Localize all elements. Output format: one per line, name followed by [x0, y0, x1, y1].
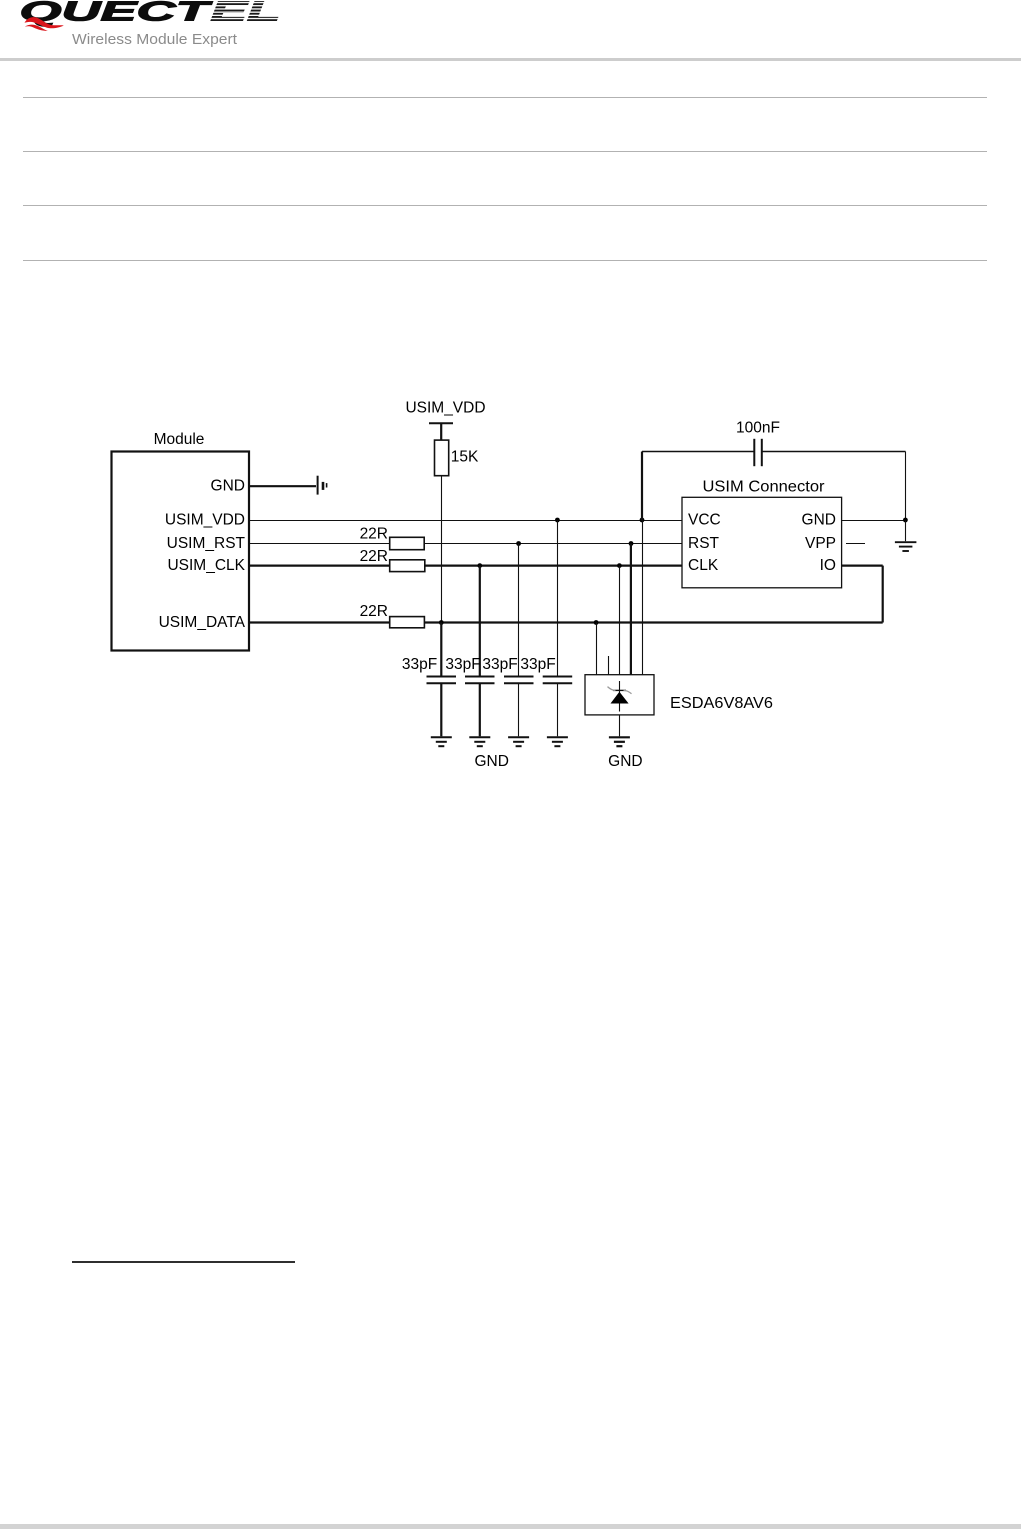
header rule	[0, 58, 1021, 61]
wire USIM_RST net (module to R 22R)	[249, 543, 390, 545]
svg-text:IO: IO	[820, 557, 836, 574]
svg-text:22R: 22R	[360, 526, 388, 543]
power bar USIM_VDD	[429, 422, 453, 424]
ground (under ESD)	[609, 737, 630, 746]
table row lines	[23, 97, 987, 98]
node junction USIM_VDD to C4	[555, 518, 560, 523]
wire R4 to connector IO loop	[424, 621, 882, 623]
ground (right of connector)	[895, 542, 917, 551]
ground (under C2)	[469, 737, 490, 746]
module U (Module block)	[112, 431, 250, 651]
wire GND pin of module	[249, 485, 316, 487]
svg-text:USIM Connector: USIM Connector	[703, 478, 825, 495]
svg-text:USIM_RST: USIM_RST	[167, 535, 246, 552]
connector J1 USIM Connector	[682, 478, 842, 588]
wire VPP stub (NC)	[846, 543, 865, 545]
wire connector GND pin	[842, 520, 906, 522]
node junction CLK to C2	[477, 563, 482, 568]
svg-text:22R: 22R	[360, 603, 388, 620]
ground (under C3)	[508, 737, 529, 746]
svg-text:VCC: VCC	[688, 511, 721, 528]
wire ESD pin2 stub (NC)	[608, 656, 610, 675]
svg-text:USIM_DATA: USIM_DATA	[159, 614, 246, 631]
node junction RST to ESD	[629, 541, 634, 546]
svg-text:USIM_VDD: USIM_VDD	[165, 511, 245, 528]
svg-text:33pF: 33pF	[482, 656, 517, 673]
svg-text:GND: GND	[802, 511, 836, 528]
logo red swoosh	[25, 17, 64, 28]
capacitor C1 33pF	[402, 656, 456, 736]
svg-text:GND: GND	[474, 753, 508, 770]
wire USIM_VDD net (module to connector VCC)	[249, 520, 682, 522]
resistor R2 22R (RST)	[360, 526, 425, 550]
node junction CLK to ESD	[617, 563, 622, 568]
wire VDD junction to C4	[557, 521, 559, 677]
node junction DATA to C1	[439, 620, 444, 625]
resistor R1 15K	[435, 440, 480, 476]
footnote rule	[72, 1261, 295, 1263]
ground (under C1)	[431, 737, 452, 746]
svg-text:RST: RST	[688, 535, 720, 552]
wire R2 to connector RST	[424, 543, 682, 545]
capacitor C2 33pF	[445, 656, 494, 736]
node junction DATA to ESD	[594, 620, 599, 625]
svg-text:GND: GND	[608, 753, 642, 770]
wire VCC junction to ESD pin5	[642, 521, 644, 675]
svg-text:VPP: VPP	[805, 535, 836, 552]
capacitor C4 33pF	[520, 656, 572, 736]
wire CLK junction to ESD pin3	[619, 566, 621, 675]
LOGO	[0, 0, 310, 56]
wire RST junction to C3	[518, 544, 520, 677]
wire connector IO pin	[842, 564, 883, 566]
svg-text:33pF: 33pF	[520, 656, 555, 673]
node junction GND pin	[903, 518, 908, 523]
node junction RST to C3	[516, 541, 521, 546]
wire USIM_DATA net (module to R 22R)	[249, 621, 390, 623]
wire DATA junction to ESD pin1	[596, 623, 598, 675]
wire R3 to connector CLK	[425, 564, 682, 566]
svg-text:Module: Module	[154, 431, 205, 448]
svg-text:100nF: 100nF	[736, 419, 780, 436]
capacitor C3 33pF	[482, 656, 533, 736]
ground (under C4)	[547, 737, 568, 746]
resistor R3 22R (CLK)	[360, 548, 425, 572]
svg-text:33pF: 33pF	[445, 656, 480, 673]
wire 100nF top left	[642, 451, 754, 453]
ground (rotated stub at module GND)	[318, 476, 327, 495]
svg-text:GND: GND	[211, 478, 245, 495]
svg-text:CLK: CLK	[688, 557, 719, 574]
wire USIM_CLK net (module to R 22R)	[249, 564, 390, 566]
node junction USIM_VDD to 100nF/ESD	[640, 518, 645, 523]
footer bar	[0, 1524, 1021, 1529]
wire R 15K to USIM_DATA net	[441, 476, 443, 623]
svg-text:22R: 22R	[360, 548, 388, 565]
wire GND junction to ground	[905, 521, 907, 542]
wire CLK junction to C2	[479, 566, 481, 677]
wire 100nF left to VCC junction	[641, 452, 643, 521]
wire ESD to ground	[619, 715, 621, 736]
svg-text:33pF: 33pF	[402, 656, 437, 673]
svg-text:15K: 15K	[451, 449, 479, 466]
svg-text:ESDA6V8AV6: ESDA6V8AV6	[670, 695, 773, 712]
wire RST junction to ESD pin4	[630, 544, 632, 675]
wire DATA junction to C1	[440, 623, 442, 677]
capacitor C5 100nF	[736, 419, 780, 466]
wire 100nF right to GND pin	[905, 452, 907, 521]
diode D1 ESDA6V8AV6 (TVS array)	[585, 675, 773, 715]
svg-text:USIM_CLK: USIM_CLK	[167, 557, 245, 574]
wire IO loop down to DATA	[882, 566, 884, 623]
wire 100nF top right	[762, 451, 906, 453]
wire power bar to R 15K	[440, 423, 442, 440]
svg-text:USIM_VDD: USIM_VDD	[405, 400, 485, 417]
resistor R4 22R (DATA)	[360, 603, 425, 628]
